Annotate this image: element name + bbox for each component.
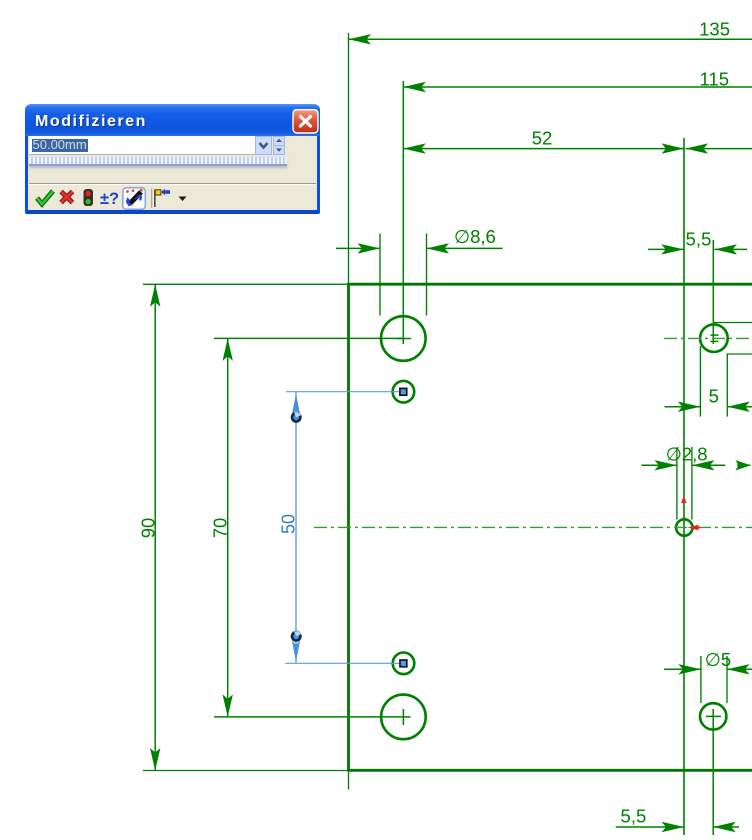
svg-text:115: 115 [700,69,730,90]
svg-text:50: 50 [279,514,299,534]
svg-text:90: 90 [137,518,158,539]
svg-text:5: 5 [709,386,719,407]
svg-text:70: 70 [209,518,230,539]
svg-text:52: 52 [532,128,553,149]
svg-text:135: 135 [699,18,730,39]
svg-text:±?: ±? [100,190,119,208]
svg-text:∅8,6: ∅8,6 [454,226,496,247]
svg-text:∅2,8: ∅2,8 [666,444,708,465]
svg-text:5,5: 5,5 [686,229,712,250]
svg-text:5,5: 5,5 [621,806,647,827]
